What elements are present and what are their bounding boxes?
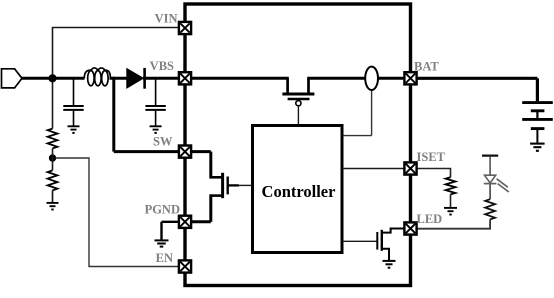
svg-text:SW: SW xyxy=(153,134,173,148)
svg-text:LED: LED xyxy=(417,212,443,226)
svg-text:ISET: ISET xyxy=(417,150,446,164)
svg-text:Controller: Controller xyxy=(262,182,336,201)
svg-text:VBS: VBS xyxy=(150,59,174,73)
svg-text:BAT: BAT xyxy=(414,59,439,73)
svg-text:VIN: VIN xyxy=(155,12,178,26)
svg-text:PGND: PGND xyxy=(145,203,180,217)
svg-text:EN: EN xyxy=(156,251,173,265)
